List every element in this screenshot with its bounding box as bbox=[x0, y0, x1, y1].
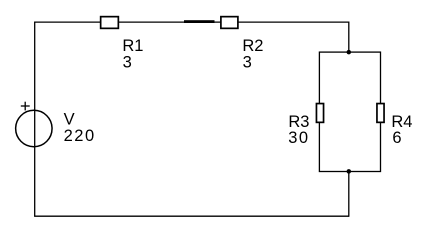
resistor R3 bbox=[316, 104, 323, 123]
wire: bottom rail bbox=[34, 215, 349, 217]
resistor R1 bbox=[101, 17, 119, 29]
resistor R4 bbox=[377, 104, 384, 123]
svg-text:3: 3 bbox=[123, 53, 132, 71]
junction node: top of parallel branch bbox=[347, 50, 352, 55]
svg-text:3: 3 bbox=[243, 53, 252, 71]
svg-text:30: 30 bbox=[288, 129, 309, 147]
resistor R4 label bbox=[391, 113, 412, 147]
wire: top rail from source to right side bbox=[35, 21, 349, 23]
junction node: bottom of parallel branch bbox=[347, 169, 352, 174]
voltage source V1 circle bbox=[16, 110, 52, 146]
wire: left vertical through source bbox=[34, 22, 36, 217]
svg-text:6: 6 bbox=[392, 129, 401, 147]
wire: right vertical upper segment bbox=[348, 22, 350, 53]
wire: doubled overlap segment left of R2 bbox=[184, 20, 215, 23]
voltage source polarity plus sign bbox=[21, 102, 30, 111]
resistor R2 bbox=[221, 17, 238, 29]
wire: right vertical lower segment bbox=[348, 172, 350, 217]
svg-text:220: 220 bbox=[64, 127, 96, 145]
resistor R2 label bbox=[242, 37, 263, 71]
resistor R1 label bbox=[122, 37, 143, 71]
resistor R3 label bbox=[288, 113, 309, 147]
voltage source value label V 220 bbox=[64, 111, 96, 145]
wire: parallel section loop (rails and branches) bbox=[319, 52, 380, 171]
